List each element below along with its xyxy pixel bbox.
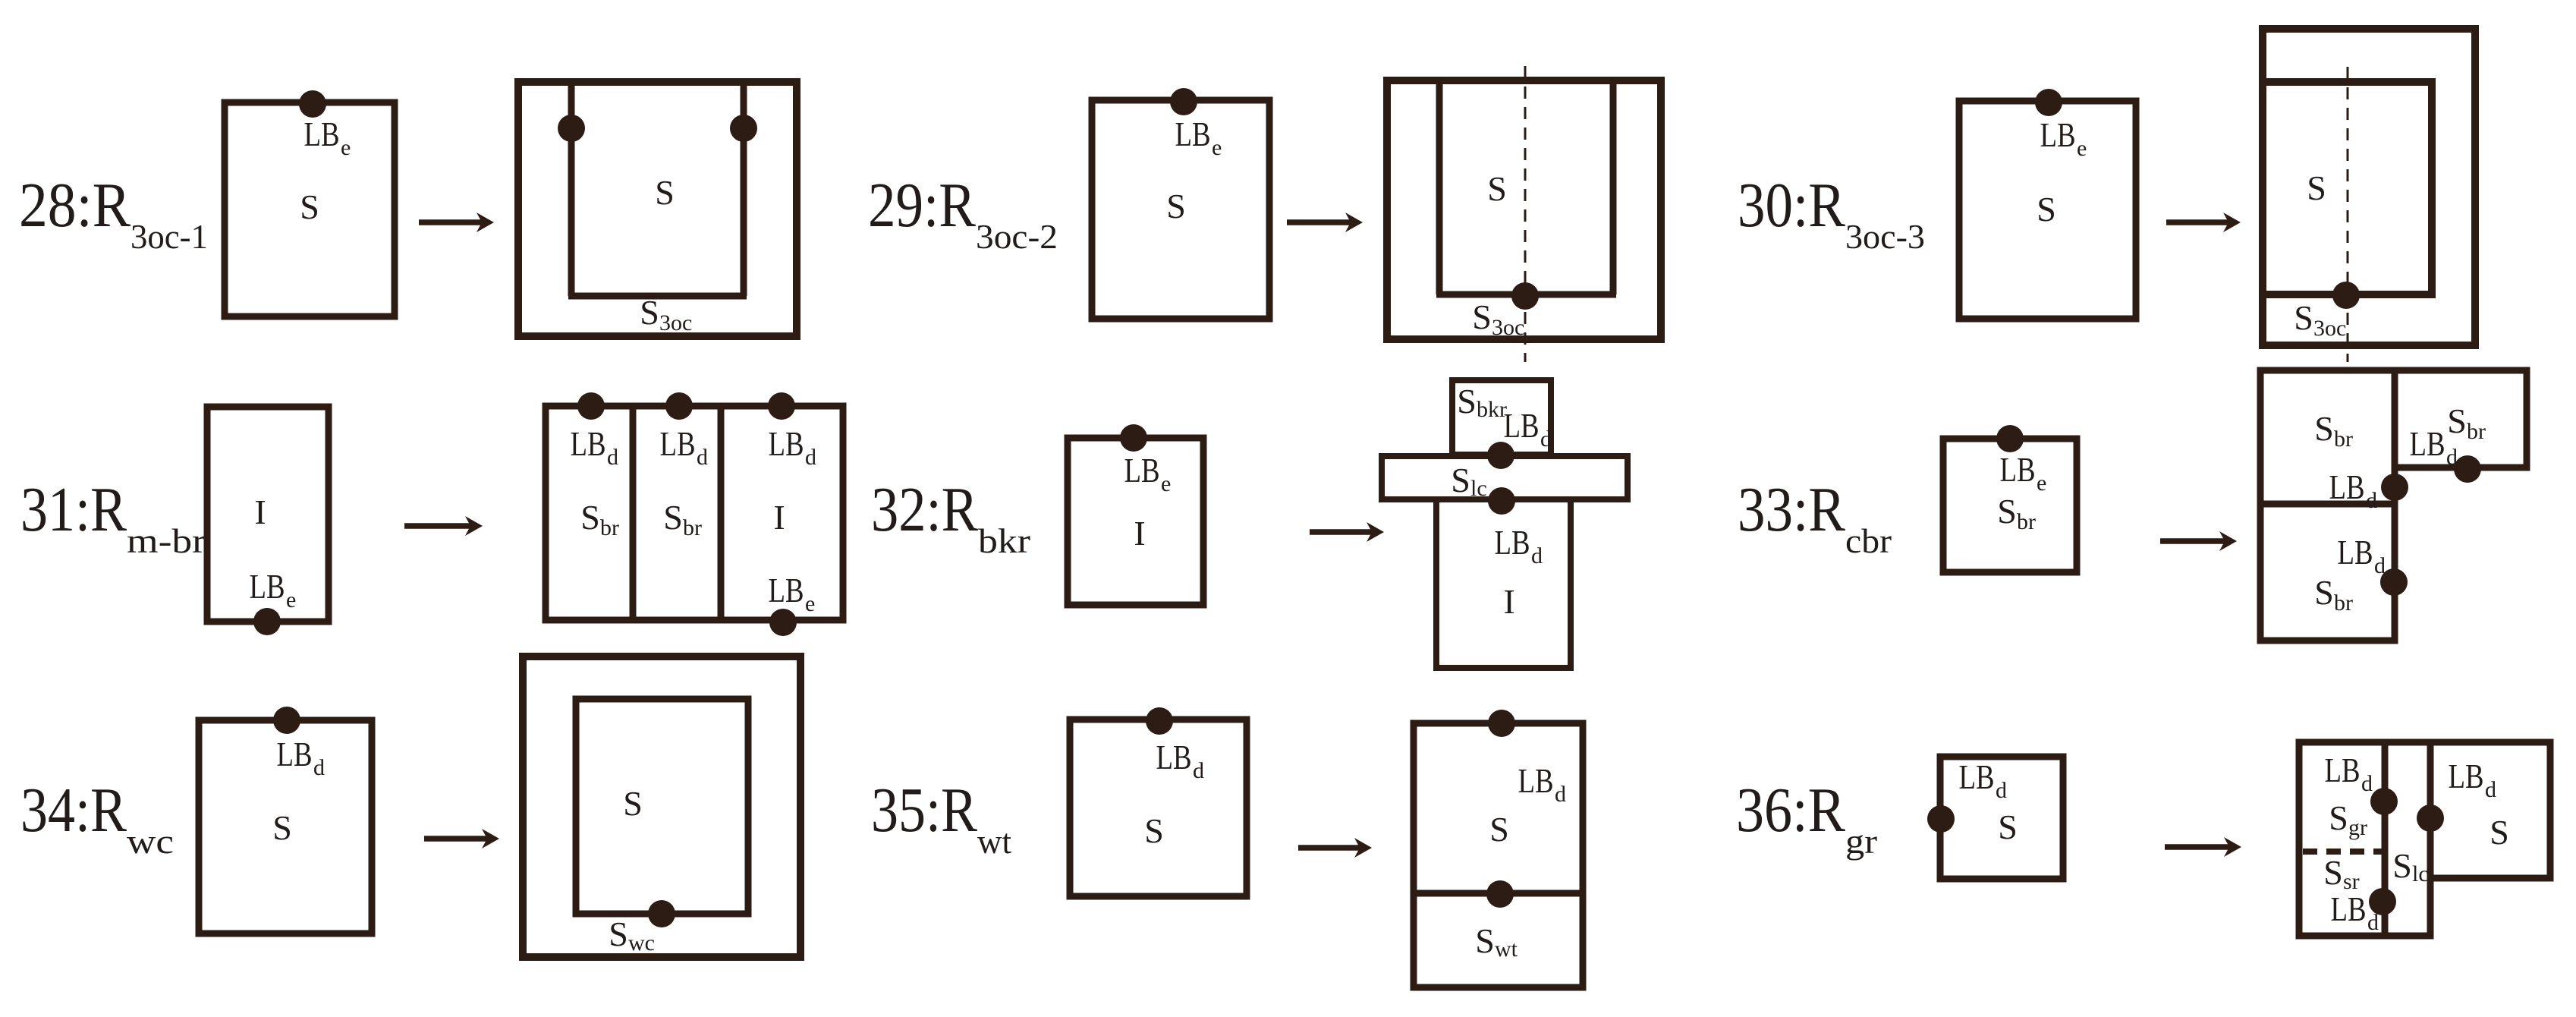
- svg-text:LB: LB: [277, 735, 313, 773]
- svg-text:e: e: [805, 591, 815, 616]
- svg-text:S: S: [2294, 298, 2313, 337]
- svg-text:S: S: [1487, 169, 1507, 208]
- svg-text:LB: LB: [2449, 757, 2484, 795]
- svg-text:S: S: [1997, 492, 2017, 531]
- svg-text:d: d: [313, 755, 325, 780]
- svg-text:LB: LB: [1504, 406, 1540, 445]
- svg-text:d: d: [1531, 543, 1543, 568]
- svg-text:S: S: [609, 915, 628, 953]
- svg-text:d: d: [1540, 427, 1552, 452]
- svg-text:d: d: [2485, 777, 2496, 802]
- svg-text:35:R: 35:R: [871, 775, 977, 845]
- svg-text:S: S: [1998, 808, 2018, 846]
- svg-text:34:R: 34:R: [20, 775, 127, 845]
- svg-text:S: S: [1457, 382, 1477, 420]
- svg-text:wc: wc: [127, 822, 174, 861]
- svg-text:d: d: [697, 445, 708, 470]
- svg-text:S: S: [300, 187, 319, 226]
- svg-text:e: e: [1161, 471, 1171, 496]
- svg-text:d: d: [2374, 553, 2386, 578]
- svg-text:33:R: 33:R: [1738, 474, 1845, 545]
- svg-text:LB: LB: [2329, 468, 2365, 506]
- svg-text:S: S: [2323, 853, 2343, 892]
- svg-text:LB: LB: [769, 424, 804, 463]
- svg-text:S: S: [2392, 846, 2412, 885]
- svg-text:d: d: [2366, 488, 2377, 513]
- svg-text:31:R: 31:R: [20, 474, 127, 545]
- svg-text:LB: LB: [1124, 451, 1160, 490]
- svg-text:S: S: [1451, 461, 1470, 499]
- svg-text:I: I: [773, 498, 785, 537]
- svg-text:28:R: 28:R: [19, 170, 131, 241]
- svg-text:LB: LB: [660, 424, 696, 463]
- svg-text:I: I: [254, 493, 266, 531]
- svg-text:LB: LB: [2331, 889, 2367, 928]
- svg-text:e: e: [1212, 135, 1222, 160]
- svg-text:3oc-1: 3oc-1: [131, 217, 208, 256]
- svg-text:S: S: [1475, 921, 1495, 960]
- svg-text:LB: LB: [250, 567, 285, 606]
- svg-text:br: br: [2017, 509, 2036, 534]
- svg-text:S: S: [2037, 190, 2056, 228]
- svg-text:wt: wt: [977, 822, 1011, 861]
- svg-text:wc: wc: [628, 930, 655, 956]
- svg-text:e: e: [2077, 136, 2087, 161]
- svg-text:29:R: 29:R: [868, 170, 976, 241]
- svg-text:LB: LB: [1518, 761, 1554, 800]
- svg-text:S: S: [2314, 409, 2334, 448]
- svg-text:br: br: [2334, 590, 2353, 616]
- svg-text:LB: LB: [2338, 533, 2373, 571]
- svg-text:S: S: [1472, 298, 1492, 336]
- svg-text:d: d: [2361, 771, 2373, 796]
- svg-text:br: br: [2467, 419, 2486, 444]
- svg-text:br: br: [600, 515, 619, 540]
- svg-text:S: S: [655, 173, 675, 212]
- svg-text:LB: LB: [2410, 424, 2445, 463]
- svg-text:S: S: [2314, 573, 2334, 612]
- svg-text:LB: LB: [769, 571, 804, 609]
- svg-text:S: S: [580, 498, 600, 537]
- svg-text:gr: gr: [2348, 815, 2367, 840]
- svg-text:S: S: [640, 293, 659, 332]
- svg-text:m-br: m-br: [127, 521, 206, 560]
- svg-text:36:R: 36:R: [1736, 775, 1845, 845]
- svg-text:3oc: 3oc: [1492, 315, 1524, 340]
- svg-text:bkr: bkr: [1477, 397, 1507, 422]
- svg-text:I: I: [1503, 582, 1514, 621]
- svg-text:d: d: [607, 445, 618, 470]
- svg-text:cbr: cbr: [1845, 521, 1892, 560]
- svg-text:3oc: 3oc: [659, 310, 692, 335]
- svg-text:LB: LB: [304, 115, 340, 153]
- svg-text:LB: LB: [2325, 751, 2361, 789]
- svg-text:d: d: [805, 445, 816, 470]
- svg-text:wt: wt: [1495, 937, 1518, 962]
- svg-text:3oc: 3oc: [2313, 316, 2346, 341]
- svg-text:S: S: [1489, 810, 1509, 849]
- svg-text:S: S: [2329, 798, 2348, 837]
- svg-text:3oc-3: 3oc-3: [1845, 217, 1925, 256]
- svg-text:gr: gr: [1845, 822, 1877, 861]
- svg-text:LB: LB: [1175, 115, 1211, 153]
- svg-text:S: S: [1166, 187, 1186, 225]
- svg-text:d: d: [1193, 758, 1204, 783]
- svg-text:LB: LB: [1959, 757, 1995, 796]
- svg-text:3oc-2: 3oc-2: [976, 217, 1058, 256]
- svg-text:d: d: [1996, 778, 2007, 803]
- svg-text:e: e: [341, 135, 351, 160]
- svg-text:br: br: [2334, 427, 2353, 452]
- svg-text:S: S: [2490, 813, 2509, 852]
- svg-text:e: e: [2037, 471, 2046, 496]
- svg-text:S: S: [2307, 168, 2326, 207]
- svg-text:bkr: bkr: [978, 521, 1030, 560]
- svg-text:lc: lc: [1470, 476, 1487, 501]
- svg-text:S: S: [1144, 811, 1164, 850]
- svg-text:LB: LB: [571, 424, 606, 463]
- svg-text:30:R: 30:R: [1738, 170, 1845, 241]
- svg-text:lc: lc: [2412, 861, 2429, 886]
- svg-text:LB: LB: [2000, 450, 2036, 489]
- svg-text:br: br: [683, 515, 702, 540]
- svg-text:S: S: [2447, 401, 2467, 440]
- svg-text:I: I: [1134, 514, 1145, 553]
- svg-text:d: d: [2367, 910, 2379, 935]
- svg-text:LB: LB: [2040, 115, 2076, 154]
- svg-text:d: d: [2446, 445, 2458, 470]
- svg-text:e: e: [286, 587, 296, 612]
- svg-text:LB: LB: [1495, 523, 1530, 562]
- svg-text:d: d: [1555, 782, 1566, 807]
- svg-text:S: S: [272, 808, 292, 847]
- svg-text:32:R: 32:R: [871, 474, 978, 545]
- svg-text:S: S: [663, 498, 683, 537]
- svg-text:LB: LB: [1156, 738, 1192, 776]
- svg-text:S: S: [623, 784, 643, 823]
